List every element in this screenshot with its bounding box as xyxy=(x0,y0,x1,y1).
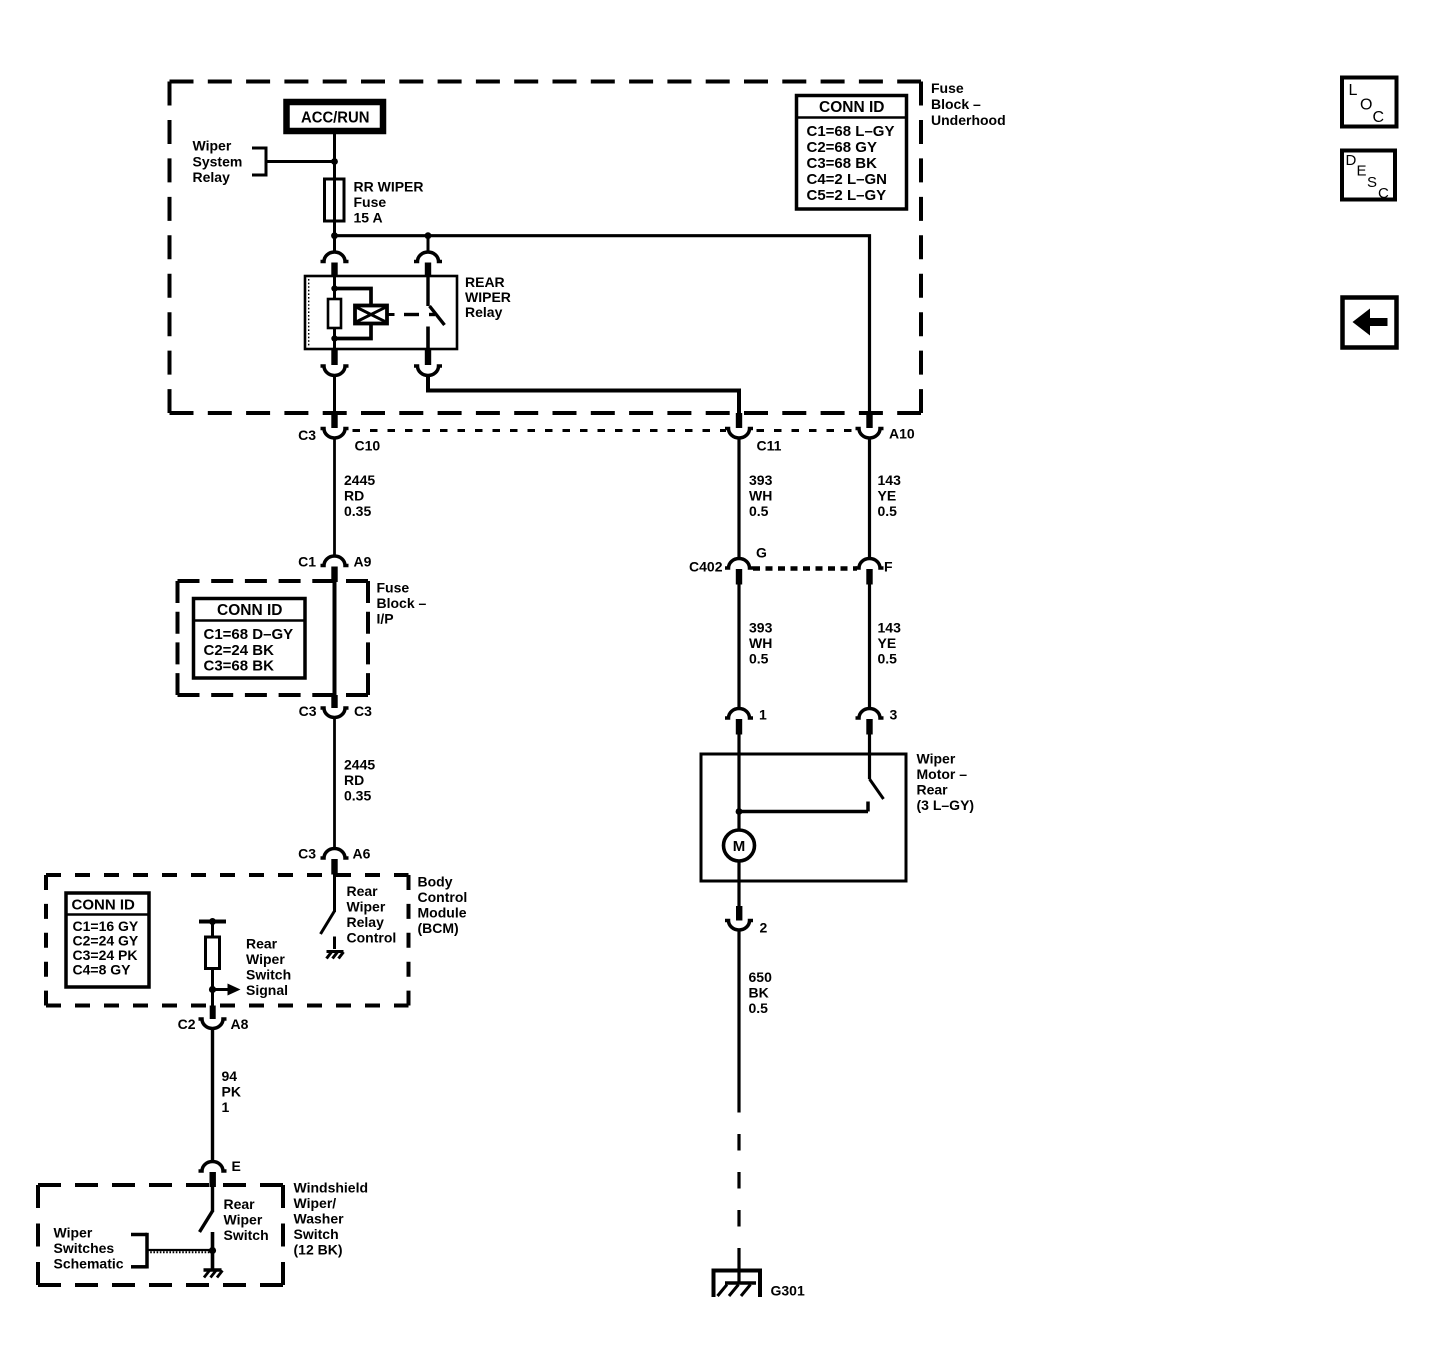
relay switch blade xyxy=(430,306,445,325)
svg-text:C: C xyxy=(1378,185,1389,202)
BCM driver switch blade xyxy=(321,911,335,934)
Windshield Wiper/Washer Switch label xyxy=(294,1180,369,1258)
connector A10 xyxy=(856,413,884,438)
Body Control Module label xyxy=(418,874,468,937)
svg-text:94: 94 xyxy=(222,1068,238,1084)
svg-text:2445: 2445 xyxy=(344,472,375,488)
in-line harness dotted line xyxy=(353,429,857,432)
svg-text:Rear: Rear xyxy=(347,883,379,899)
svg-text:RR WIPER: RR WIPER xyxy=(354,179,424,195)
svg-text:YE: YE xyxy=(878,635,897,651)
svg-text:Fuse: Fuse xyxy=(931,80,964,96)
connector pin 3 xyxy=(856,709,884,735)
svg-text:CONN ID: CONN ID xyxy=(72,897,136,914)
svg-text:Wiper: Wiper xyxy=(347,899,386,915)
wire label 2445 RD 0.35 xyxy=(344,472,375,519)
relay bottom male stub right xyxy=(425,349,431,365)
svg-text:YE: YE xyxy=(878,488,897,504)
svg-text:Wiper: Wiper xyxy=(193,138,232,154)
wire fuse to bus xyxy=(333,221,336,236)
wire label 143 YE 0.5 (second) xyxy=(878,620,902,667)
svg-text:BK: BK xyxy=(749,985,769,1001)
coil pigtail xyxy=(387,313,395,316)
svg-text:Relay: Relay xyxy=(347,914,385,930)
svg-text:Control: Control xyxy=(418,889,468,905)
wire T to resistor xyxy=(211,922,214,938)
svg-text:Schematic: Schematic xyxy=(54,1256,124,1272)
svg-text:C1=68 L–GY: C1=68 L–GY xyxy=(807,123,895,140)
svg-text:WIPER: WIPER xyxy=(465,289,511,305)
Body Control Module dashed box xyxy=(46,875,409,1006)
svg-text:G: G xyxy=(756,545,767,561)
svg-text:C5=2 L–GY: C5=2 L–GY xyxy=(807,187,887,204)
wire label 143 YE 0.5 xyxy=(878,472,902,519)
dashed ground wire xyxy=(737,1096,740,1258)
wire F to motor pin 3 xyxy=(868,585,871,709)
Wiper Switches Schematic dashed box xyxy=(38,1185,283,1285)
svg-text:Wiper: Wiper xyxy=(917,751,956,767)
svg-text:C2: C2 xyxy=(178,1016,196,1032)
Rear Wiper Relay Control label xyxy=(347,883,397,946)
svg-text:2445: 2445 xyxy=(344,757,375,773)
wire label 2445 RD 0.35 (second) xyxy=(344,757,375,804)
svg-text:Switches: Switches xyxy=(54,1240,115,1256)
rear wiper switch lower wire xyxy=(211,1232,215,1270)
RR WIPER fuse label xyxy=(354,179,424,226)
junction dot switch common xyxy=(209,1247,216,1254)
wiper switch ground xyxy=(204,1270,223,1278)
svg-text:Wiper: Wiper xyxy=(54,1225,93,1241)
REAR WIPER Relay label xyxy=(465,274,511,320)
Fuse Block I/P dashed box xyxy=(178,581,369,695)
svg-text:Wiper: Wiper xyxy=(246,951,285,967)
svg-text:C11: C11 xyxy=(757,438,782,454)
relay switch wire in xyxy=(426,276,429,306)
svg-text:F: F xyxy=(884,559,893,575)
svg-text:Relay: Relay xyxy=(193,169,231,185)
svg-text:Wiper/: Wiper/ xyxy=(294,1195,337,1211)
svg-text:2: 2 xyxy=(760,920,768,936)
connector C402-F xyxy=(856,559,884,585)
Wiper Motor Rear box xyxy=(701,754,906,881)
connector C3/A6 (BCM entry) xyxy=(321,849,349,875)
svg-text:C3=68 BK: C3=68 BK xyxy=(807,155,878,172)
junction dot signal xyxy=(209,986,216,993)
svg-text:0.5: 0.5 xyxy=(749,503,769,519)
svg-text:PK: PK xyxy=(222,1084,241,1100)
svg-text:Switch: Switch xyxy=(224,1227,269,1243)
Wiper Motor Rear label xyxy=(917,751,975,814)
relay top female connector left xyxy=(321,252,349,278)
svg-text:Switch: Switch xyxy=(294,1226,339,1242)
ground G301 xyxy=(712,1269,763,1298)
svg-text:1: 1 xyxy=(222,1099,230,1115)
svg-text:Windshield: Windshield xyxy=(294,1180,369,1196)
svg-text:(12 BK): (12 BK) xyxy=(294,1242,343,1258)
wire relay switch to C11 xyxy=(428,377,739,414)
svg-text:Control: Control xyxy=(347,930,397,946)
svg-text:650: 650 xyxy=(749,969,773,985)
BCM internal ground xyxy=(327,952,344,959)
fuse RR WIPER 15A xyxy=(325,179,345,221)
connector C1/A9 (fuse block I/P entry) xyxy=(321,556,349,582)
wire C3 to C3/A6 xyxy=(333,718,336,849)
junction dots on bus xyxy=(331,232,338,239)
svg-text:Motor –: Motor – xyxy=(917,766,968,782)
wire resistor to C2 xyxy=(211,969,214,1006)
connector pin 1 xyxy=(725,709,753,735)
svg-text:I/P: I/P xyxy=(377,611,394,627)
relay box left dotted inner edge xyxy=(308,279,310,347)
svg-text:L: L xyxy=(1349,82,1358,99)
CONN ID table (underhood) xyxy=(797,96,907,210)
Wiper Switches Schematic label xyxy=(54,1225,124,1272)
wire motor to box bottom xyxy=(737,861,740,907)
wire C11 to C402-G xyxy=(737,439,740,559)
svg-text:CONN ID: CONN ID xyxy=(819,99,884,116)
svg-text:RD: RD xyxy=(344,772,364,788)
REAR WIPER Relay box xyxy=(305,276,457,349)
BCM driver switch wire xyxy=(333,875,336,913)
relay bottom female cup right xyxy=(414,366,442,376)
Fuse Block Underhood dashed box xyxy=(170,82,922,414)
rear wiper switch wire in xyxy=(211,1187,214,1212)
Fuse Block Underhood label xyxy=(931,80,1006,128)
svg-text:Rear: Rear xyxy=(246,936,278,952)
svg-text:0.5: 0.5 xyxy=(749,1000,769,1016)
svg-text:Underhood: Underhood xyxy=(931,112,1006,128)
relay bottom male stub left xyxy=(331,349,337,365)
svg-text:CONN ID: CONN ID xyxy=(217,602,282,619)
LOC button box xyxy=(1342,78,1397,127)
svg-text:E: E xyxy=(1357,163,1367,180)
DESC button box xyxy=(1342,151,1395,203)
wire label 393 WH 0.5 xyxy=(749,472,773,519)
connector C402-G xyxy=(725,559,753,585)
ACC/RUN power feed box xyxy=(287,102,384,131)
hatched link wire xyxy=(147,1250,213,1252)
svg-text:WH: WH xyxy=(749,635,772,651)
relay switch wire out xyxy=(426,327,430,350)
junction dot motor xyxy=(736,808,743,815)
svg-text:Fuse: Fuse xyxy=(377,579,410,595)
rear wiper switch blade xyxy=(200,1211,213,1232)
svg-text:0.5: 0.5 xyxy=(878,503,898,519)
svg-text:E: E xyxy=(232,1158,241,1174)
svg-text:O: O xyxy=(1360,97,1372,114)
svg-text:ACC/RUN: ACC/RUN xyxy=(301,110,370,127)
connector pin 2 xyxy=(725,906,753,930)
wire ACC/RUN down to fuse xyxy=(333,134,336,179)
relay branch loop xyxy=(335,289,372,339)
svg-text:REAR: REAR xyxy=(465,274,505,290)
svg-text:C2=68 GY: C2=68 GY xyxy=(807,139,877,156)
wire A10 to C402-F xyxy=(868,439,871,559)
wire label 650 BK 0.5 xyxy=(749,969,773,1016)
svg-text:Signal: Signal xyxy=(246,982,288,998)
relay coil crossed box xyxy=(355,306,387,324)
svg-text:D: D xyxy=(1346,152,1357,169)
svg-text:C2=24 BK: C2=24 BK xyxy=(204,642,275,659)
BCM switch lower wire xyxy=(333,937,336,950)
svg-text:RD: RD xyxy=(344,488,364,504)
relay coil feed wire xyxy=(333,276,336,299)
wire C2 to E xyxy=(211,1029,214,1162)
relay bottom female cup left xyxy=(321,366,349,376)
svg-text:(3 L–GY): (3 L–GY) xyxy=(917,797,975,813)
svg-text:WH: WH xyxy=(749,488,772,504)
svg-text:3: 3 xyxy=(890,707,898,723)
wire G to motor pin 1 xyxy=(737,585,740,709)
wire bus to relay pin (right) xyxy=(427,236,430,253)
svg-text:1: 1 xyxy=(759,707,767,723)
Wiper System Relay label xyxy=(193,138,243,186)
svg-text:393: 393 xyxy=(749,472,773,488)
svg-text:Relay: Relay xyxy=(465,304,503,320)
svg-text:393: 393 xyxy=(749,620,773,636)
svg-text:C3=68 BK: C3=68 BK xyxy=(204,658,275,675)
svg-text:Module: Module xyxy=(418,905,467,921)
resistor pull-up T bar xyxy=(199,920,226,924)
svg-text:C402: C402 xyxy=(689,559,723,575)
CONN ID table (I/P) xyxy=(194,599,306,679)
svg-text:0.5: 0.5 xyxy=(878,651,898,667)
motor M xyxy=(724,830,755,861)
svg-text:C4=2 L–GN: C4=2 L–GN xyxy=(807,171,887,188)
connector C2/A8 (BCM exit) xyxy=(199,1006,227,1029)
wire relay to C3 connector xyxy=(333,377,336,414)
svg-text:C10: C10 xyxy=(355,438,381,454)
svg-text:A10: A10 xyxy=(889,426,915,442)
motor park switch blade xyxy=(870,779,884,799)
bus wire to A10 drop xyxy=(335,236,870,413)
svg-text:C3: C3 xyxy=(298,846,316,862)
park switch contact tick xyxy=(866,802,870,812)
wire pin3 into motor box xyxy=(868,735,871,780)
svg-text:C4=8 GY: C4=8 GY xyxy=(73,962,132,978)
svg-text:C1=68 D–GY: C1=68 D–GY xyxy=(204,626,294,643)
svg-text:143: 143 xyxy=(878,620,902,636)
svg-text:Block –: Block – xyxy=(931,96,981,112)
Rear Wiper Switch label xyxy=(224,1196,269,1243)
back-arrow button box xyxy=(1343,298,1397,348)
svg-text:Switch: Switch xyxy=(246,967,291,983)
wire C3 to C1 xyxy=(333,439,336,557)
svg-text:C1: C1 xyxy=(298,554,316,570)
svg-text:Wiper: Wiper xyxy=(224,1212,263,1228)
svg-text:0.35: 0.35 xyxy=(344,788,371,804)
svg-text:Rear: Rear xyxy=(224,1196,256,1212)
junction dots in relay xyxy=(331,285,337,291)
connector C3/C3 (I/P exit) xyxy=(321,695,349,718)
junction at wiper system relay tap xyxy=(331,158,338,165)
Fuse Block I/P label xyxy=(377,579,427,626)
relay top female connector right xyxy=(414,252,442,278)
svg-text:S: S xyxy=(1367,174,1377,191)
wire bus to relay pin (left) xyxy=(333,236,336,253)
park switch wire to motor junction xyxy=(739,810,868,814)
svg-text:A8: A8 xyxy=(231,1016,249,1032)
svg-text:M: M xyxy=(733,838,746,855)
svg-text:0.35: 0.35 xyxy=(344,503,371,519)
signal arrow xyxy=(213,984,241,996)
svg-text:15 A: 15 A xyxy=(354,210,383,226)
wiper switches bracket xyxy=(131,1233,147,1269)
svg-text:143: 143 xyxy=(878,472,902,488)
connector C3/C10 (fuse block exit) xyxy=(321,413,349,438)
wire into G301 xyxy=(737,1258,740,1283)
svg-text:A9: A9 xyxy=(354,554,372,570)
svg-text:0.5: 0.5 xyxy=(749,651,769,667)
CONN ID table (BCM) xyxy=(66,893,149,987)
C402 dashed connector line xyxy=(753,566,857,571)
wire resistor to bottom junction xyxy=(333,328,336,349)
wire pin1 into motor box xyxy=(737,735,740,831)
svg-text:C3: C3 xyxy=(298,427,316,443)
Wiper System Relay bracket xyxy=(252,147,335,177)
svg-text:(BCM): (BCM) xyxy=(418,920,459,936)
svg-text:G301: G301 xyxy=(771,1283,805,1299)
svg-text:Rear: Rear xyxy=(917,782,949,798)
relay resistor xyxy=(328,299,341,328)
svg-text:Washer: Washer xyxy=(294,1211,345,1227)
connector E xyxy=(199,1162,227,1188)
resistor (rear wiper switch signal) xyxy=(206,937,220,969)
svg-text:Fuse: Fuse xyxy=(354,194,387,210)
svg-text:C: C xyxy=(1373,109,1385,126)
svg-text:Body: Body xyxy=(418,874,453,890)
svg-text:Block –: Block – xyxy=(377,595,427,611)
wire through I/P fuse block xyxy=(333,582,337,695)
Rear Wiper Switch Signal label xyxy=(246,936,291,999)
coil to switch dashed link xyxy=(404,313,419,316)
svg-text:System: System xyxy=(193,153,243,169)
svg-text:A6: A6 xyxy=(353,846,371,862)
wire pin2 down xyxy=(737,931,740,1097)
junction dot under T xyxy=(209,918,216,925)
svg-text:C3: C3 xyxy=(354,703,372,719)
connector C11 xyxy=(725,413,753,438)
wire label 94 PK 1 xyxy=(222,1068,241,1115)
svg-text:C3: C3 xyxy=(299,703,317,719)
wire label 393 WH 0.5 (second) xyxy=(749,620,773,667)
